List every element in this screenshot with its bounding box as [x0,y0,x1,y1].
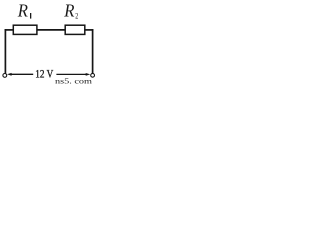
node: left terminal [3,74,7,78]
svg-text:R: R [63,1,74,21]
dimension arrow right (points to right terminal) [56,73,90,76]
resistor R2 [65,25,85,34]
wire: top-right horizontal segment [85,29,94,31]
label R1 [17,1,31,21]
resistor R1 [13,25,37,34]
wire: left vertical [4,29,6,74]
svg-text:ns5. com: ns5. com [55,77,93,84]
dimension arrow left (points to left terminal) [7,73,33,76]
svg-text:2: 2 [75,11,78,21]
node: right terminal [91,73,95,77]
svg-text:12 V: 12 V [35,68,53,81]
wire: right vertical [92,29,94,73]
svg-text:R: R [17,1,28,21]
wire: middle horizontal segment [37,29,66,31]
wire: top-left horizontal segment [5,29,14,31]
label R2 [63,1,78,21]
